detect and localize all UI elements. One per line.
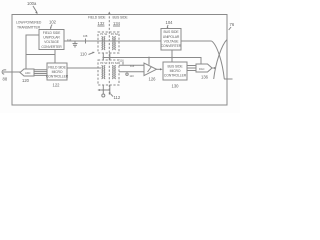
- svg-text:108: 108: [83, 34, 88, 38]
- svg-text:CONTROLLER: CONTROLLER: [164, 74, 187, 78]
- svg-text:88: 88: [3, 77, 8, 82]
- svg-text:S1: S1: [104, 32, 108, 36]
- svg-text:110: 110: [130, 74, 135, 78]
- svg-text:134: 134: [113, 21, 121, 26]
- svg-text:BUS SIDE: BUS SIDE: [163, 30, 179, 34]
- svg-text:MICRO: MICRO: [52, 70, 63, 74]
- svg-text:FIELD SIDE: FIELD SIDE: [88, 16, 106, 20]
- svg-text:CONVERTER: CONVERTER: [41, 45, 62, 49]
- svg-text:136: 136: [201, 75, 209, 80]
- svg-text:VOLTAGE: VOLTAGE: [164, 39, 180, 43]
- svg-text:110: 110: [67, 38, 72, 42]
- svg-text:110: 110: [80, 52, 87, 57]
- svg-text:FIELD SIDE: FIELD SIDE: [43, 31, 61, 35]
- svg-text:130: 130: [172, 84, 180, 89]
- svg-text:MICRO: MICRO: [170, 69, 181, 73]
- svg-text:ADC: ADC: [25, 71, 31, 75]
- svg-text:VOLTAGE: VOLTAGE: [44, 40, 60, 44]
- svg-text:DAC: DAC: [199, 67, 205, 71]
- svg-text:CONVERTER: CONVERTER: [161, 44, 182, 48]
- svg-text:112: 112: [114, 95, 121, 100]
- svg-text:S4: S4: [115, 61, 119, 65]
- svg-text:102: 102: [49, 20, 57, 25]
- svg-text:120: 120: [22, 78, 30, 83]
- svg-text:132: 132: [98, 21, 106, 26]
- svg-text:BUS SIDE: BUS SIDE: [167, 65, 183, 69]
- svg-text:100a: 100a: [27, 1, 37, 6]
- svg-text:LOW-POWERED: LOW-POWERED: [16, 21, 42, 25]
- svg-text:FIELD SIDE: FIELD SIDE: [48, 65, 66, 69]
- svg-text:S2: S2: [115, 32, 119, 36]
- svg-text:TRANSMITTER: TRANSMITTER: [17, 26, 41, 30]
- svg-text:CONTROLLER: CONTROLLER: [46, 74, 69, 78]
- svg-text:S3: S3: [104, 61, 108, 65]
- svg-text:76: 76: [230, 22, 235, 27]
- svg-text:114: 114: [130, 64, 135, 68]
- svg-text:UNIPOLAR: UNIPOLAR: [43, 36, 60, 40]
- svg-text:BUS SIDE: BUS SIDE: [113, 16, 129, 20]
- svg-text:122: 122: [53, 83, 61, 88]
- svg-text:126: 126: [149, 77, 157, 82]
- svg-text:UNIPOLAR: UNIPOLAR: [163, 35, 180, 39]
- svg-text:104: 104: [166, 20, 174, 25]
